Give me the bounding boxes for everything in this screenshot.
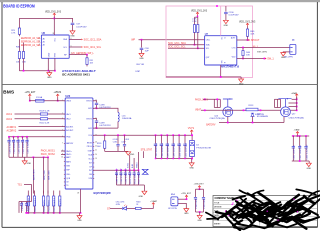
svg-text:CSD17578Q5A: CSD17578Q5A: [289, 116, 305, 119]
svg-text:U22: U22: [65, 94, 70, 98]
svg-text:TREG: TREG: [136, 162, 138, 168]
wire pink vertical to U7: [220, 6, 222, 36]
svg-text:A2: A2: [43, 44, 45, 47]
svg-text:VAC2: VAC2: [6, 118, 13, 121]
junction bankB5: [133, 169, 135, 171]
svg-text:SW2: SW2: [88, 128, 92, 130]
svg-text:9: 9: [62, 154, 63, 156]
svg-text:VBUS: VBUS: [66, 101, 72, 103]
junction bankC2: [299, 135, 301, 137]
wire bankB net3: [138, 152, 140, 170]
svg-text:2: 2: [62, 113, 63, 115]
svg-text:C165 10UF/35V: C165 10UF/35V: [18, 138, 20, 153]
svg-text:VAC1: VAC1: [66, 113, 70, 116]
wire WP to U7: [139, 39, 205, 41]
junction bankB2: [120, 169, 122, 171]
capacitor C168: [21, 202, 23, 204]
svg-text:1UH/6.8A: 1UH/6.8A: [122, 117, 132, 120]
ground clusterA: [127, 150, 128, 152]
svg-text:C164 10UF/35V: C164 10UF/35V: [14, 138, 16, 153]
svg-text:C187: C187: [121, 141, 125, 143]
ground J14: [184, 209, 189, 212]
svg-text:SOC_I2C1_SDA: SOC_I2C1_SDA: [84, 38, 102, 41]
junction R111: [104, 134, 106, 136]
wire pulldowns to gnd rail: [18, 59, 20, 71]
svg-text:R125 10K: R125 10K: [27, 201, 29, 211]
ground C196: [223, 20, 228, 23]
svg-text:REGN: REGN: [87, 142, 93, 144]
svg-text:SCL: SCL: [63, 47, 67, 49]
svg-text:4.7K: 4.7K: [11, 33, 16, 35]
svg-text:PACK_MOS: PACK_MOS: [195, 98, 208, 101]
connector J14: [171, 197, 178, 206]
wire gnd rail: [19, 70, 55, 72]
wire gnd run: [166, 76, 241, 78]
ground EEPROM: [48, 71, 50, 73]
svg-text:STB_STAT: STB_STAT: [141, 149, 153, 152]
svg-text:GND: GND: [184, 213, 189, 215]
svg-text:20: 20: [95, 154, 97, 156]
svg-text:SOC_I2C1_SDA: SOC_I2C1_SDA: [168, 42, 186, 45]
wire U6 bottom pins: [47, 58, 49, 70]
capacitor C166: [22, 137, 24, 140]
wire U6 SDA: [69, 38, 81, 40]
wire ACDRV2 row: [19, 129, 66, 131]
svg-text:0.1UF/16V: 0.1UF/16V: [229, 15, 240, 17]
junction gnd rail: [23, 70, 25, 72]
svg-text:SCL: SCL: [206, 48, 210, 50]
svg-text:GND: GND: [239, 84, 244, 86]
capacitor C194: [195, 189, 197, 197]
redaction scribble: [281, 207, 302, 219]
svg-text:GND: GND: [281, 57, 286, 59]
junction bankB6: [138, 169, 140, 171]
svg-text:SD103ASW: SD103ASW: [257, 115, 268, 118]
junction R44 SCL: [197, 47, 199, 49]
junction R46 top: [242, 47, 244, 49]
svg-text:VBAT: VBAT: [195, 109, 202, 112]
diode D22: [251, 113, 254, 116]
junction vsys4: [172, 134, 174, 136]
svg-text:VDD_SYS_3V3: VDD_SYS_3V3: [191, 10, 208, 12]
junction pink top: [216, 5, 218, 7]
svg-text:R115 10K/1%: R115 10K/1%: [130, 171, 132, 183]
svg-text:C190 0.1UF/16V: C190 0.1UF/16V: [126, 168, 128, 184]
svg-text:VAC1: VAC1: [6, 113, 13, 116]
svg-text:ACDRV1: ACDRV1: [66, 125, 73, 128]
ground J4 pin2: [281, 53, 286, 56]
power +VIN_EXT: [29, 94, 31, 97]
capacitor R116: [133, 170, 135, 172]
wire ALRT to SPOUT: [237, 39, 249, 41]
svg-text:F3 6A: F3 6A: [36, 96, 42, 99]
resistor R118: [136, 207, 142, 209]
junction R43 SDA: [194, 44, 196, 46]
power VSYS: [191, 130, 193, 133]
junction incap2: [13, 136, 15, 138]
wire ACDRV1 row: [19, 126, 66, 128]
wire bankB net1: [129, 155, 131, 170]
svg-text:6: 6: [62, 136, 63, 138]
Q17 drain lead: [278, 99, 291, 107]
junction R121 bottom: [43, 212, 45, 214]
U22 pin stubs: [64, 100, 65, 102]
capacitor C202: [305, 136, 307, 146]
capacitor C57: [71, 22, 75, 24]
svg-text:A1: A1: [43, 41, 45, 44]
svg-text:MAX17048G+T10: MAX17048G+T10: [221, 66, 240, 69]
svg-text:I2C ADDRESS 0X01: I2C ADDRESS 0X01: [62, 73, 91, 76]
wire PMID row: [9, 136, 66, 138]
wire J14 pin1: [178, 198, 187, 200]
svg-text:C183 22UF/25V: C183 22UF/25V: [156, 142, 158, 157]
svg-text:BATP_SNS: BATP_SNS: [33, 169, 36, 180]
svg-text:R110 2.2R: R110 2.2R: [40, 123, 50, 125]
svg-text:+VBAT: +VBAT: [294, 129, 301, 132]
svg-text:GND: GND: [197, 220, 202, 222]
resistor R123: [53, 191, 55, 197]
wire incap gnd rail: [9, 156, 48, 158]
node SW_1: [265, 58, 267, 60]
svg-text:10K: 10K: [97, 146, 101, 148]
wire J4 pin2 to gnd: [283, 51, 290, 54]
wire left drop: [18, 18, 20, 28]
svg-text:GND: GND: [307, 168, 312, 170]
junction vsys6: [184, 134, 186, 136]
wire SDA into U7: [168, 44, 205, 46]
junction SPOUT: [247, 39, 249, 41]
chip U22: [65, 98, 93, 189]
svg-text:BATDRV: BATDRV: [66, 142, 74, 145]
junction vsys3: [166, 134, 168, 136]
svg-text:VSYS: VSYS: [188, 127, 195, 130]
svg-text:VDD_SYS_3V3: VDD_SYS_3V3: [45, 11, 62, 14]
svg-text:Q16: Q16: [214, 115, 218, 117]
junction bottom rail right: [80, 212, 82, 214]
svg-text:EXT_BTN: EXT_BTN: [257, 52, 267, 54]
svg-text:BOARD ID EEPROM: BOARD ID EEPROM: [3, 4, 35, 9]
ground bankB: [143, 185, 145, 191]
ground bankC: [308, 161, 310, 163]
svg-text:PROG: PROG: [87, 146, 93, 148]
node SOC_I2C1_SDA right: [81, 39, 83, 41]
wire U7 gnd drop: [220, 65, 222, 77]
svg-text:PTVS20VS1UTR: PTVS20VS1UTR: [196, 148, 211, 150]
junction C187: [124, 134, 126, 136]
resistor R45: [247, 26, 249, 29]
wire BTST2: [93, 119, 97, 121]
svg-text:10K: 10K: [250, 34, 254, 36]
svg-text:C198: C198: [99, 104, 105, 106]
wire TS1: [24, 185, 32, 202]
svg-text:C194 10UF: C194 10UF: [196, 198, 198, 209]
power +VBAT lower: [297, 132, 299, 135]
svg-text:TITLE:: TITLE:: [214, 203, 220, 205]
svg-text:I2C_EEPROM_WP_L: I2C_EEPROM_WP_L: [72, 53, 95, 55]
svg-text:PACK_MOS2: PACK_MOS2: [41, 153, 56, 156]
junction source rail: [204, 109, 206, 111]
svg-text:10: 10: [61, 157, 63, 159]
svg-text:R109 2.2R: R109 2.2R: [40, 110, 50, 112]
wire gate rail: [219, 122, 284, 124]
resistor R121: [43, 191, 45, 197]
svg-text:R124 10K/1%: R124 10K/1%: [60, 199, 62, 212]
resistor R113 sense: [246, 108, 258, 111]
svg-text:GND: GND: [77, 220, 82, 222]
ground C57: [70, 31, 75, 34]
wire SRP vertical: [47, 157, 49, 193]
capacitor C187: [124, 135, 126, 144]
junction bankC3: [305, 135, 307, 137]
ground incaps: [24, 157, 26, 161]
wire cluster top: [196, 188, 204, 190]
power J14 VIN: [186, 195, 188, 198]
junction gnd run: [220, 76, 222, 78]
resistor R122: [47, 191, 49, 197]
capacitor C195: [203, 189, 205, 197]
capacitor C199: [95, 120, 98, 122]
svg-text:C186 22UF/25V: C186 22UF/25V: [174, 142, 176, 157]
svg-text:PACK-: PACK-: [66, 153, 72, 156]
svg-text:BTST1: BTST1: [86, 101, 91, 103]
resistor R119: [27, 191, 29, 197]
resistor R120: [33, 191, 35, 197]
svg-text:C195 10UF: C195 10UF: [204, 198, 206, 209]
svg-text:C185 22UF/25V: C185 22UF/25V: [168, 142, 170, 157]
junction bankB3: [124, 169, 126, 171]
svg-text:SPOUT: SPOUT: [251, 39, 260, 42]
capacitor C188: [116, 170, 118, 172]
junction vsys5: [178, 134, 180, 136]
Q16 drain lead: [223, 99, 233, 107]
resistor R109: [40, 113, 47, 115]
junction R123 bottom: [53, 212, 55, 214]
wire bankB net2: [133, 158, 135, 170]
svg-text:GND: GND: [49, 52, 51, 57]
wire vsys bank bottom: [156, 158, 192, 160]
svg-text:ACDRV2: ACDRV2: [66, 129, 73, 132]
wire VAC1 row: [15, 113, 41, 115]
junction bankC1: [292, 135, 294, 137]
svg-text:7: 7: [62, 142, 63, 144]
ground U22 pad: [79, 213, 81, 216]
resistor R43: [194, 17, 196, 24]
svg-text:1: 1: [62, 100, 63, 102]
svg-text:SCL: SCL: [88, 159, 91, 161]
wire gate ladder top: [203, 98, 220, 100]
wire bankB bottom: [117, 184, 145, 186]
wire VAC2 row: [15, 118, 41, 120]
junction vsys1: [155, 134, 157, 136]
wire VBAT stubs: [292, 98, 297, 100]
svg-text:SW_1: SW_1: [267, 58, 274, 61]
svg-text:SOC_I2C1_SCL: SOC_I2C1_SCL: [84, 46, 102, 49]
capacitor R117: [138, 170, 140, 172]
svg-text:+VIN_EXT: +VIN_EXT: [25, 92, 37, 94]
svg-text:C189 0.1UF/16V: C189 0.1UF/16V: [121, 168, 123, 184]
svg-text:R122 0R/5%: R122 0R/5%: [48, 200, 50, 212]
capacitor C165: [17, 137, 19, 140]
svg-text:C167 0.1UF/35V: C167 0.1UF/35V: [27, 138, 29, 154]
svg-text:10K: 10K: [246, 55, 250, 57]
gate ladder Q17: [274, 99, 276, 107]
capacitor C192: [184, 135, 186, 143]
wire labels to pulldowns: [18, 39, 20, 51]
svg-text:SD_1: SD_1: [253, 46, 259, 48]
junction VDD: [53, 18, 55, 20]
capacitor C198: [95, 102, 98, 104]
svg-text:C163 0.1UF/35V: C163 0.1UF/35V: [9, 138, 11, 154]
svg-text:ILIM: ILIM: [132, 164, 134, 168]
capacitor C190: [124, 170, 126, 172]
capacitor C184: [160, 135, 162, 143]
svg-text:C200 10UF/35V: C200 10UF/35V: [294, 144, 296, 159]
junction VBUS: [57, 100, 59, 102]
diode D21 LED: [123, 207, 127, 210]
svg-text:C188 0.1UF/16V: C188 0.1UF/16V: [117, 168, 119, 184]
svg-text:GND: GND: [139, 196, 144, 198]
svg-text:GND: GND: [130, 154, 135, 156]
capacitor C186: [172, 135, 174, 143]
fuse F3: [36, 99, 44, 102]
wire source rail: [201, 109, 297, 111]
wire TS cluster top: [19, 201, 32, 203]
svg-text:DATE:: DATE:: [214, 214, 220, 217]
svg-text:2: 2: [39, 41, 40, 43]
svg-text:SRP_SNS: SRP_SNS: [48, 170, 50, 180]
svg-text:R118: R118: [136, 201, 140, 203]
transistor Q17: [281, 107, 291, 117]
resistor R46: [242, 48, 244, 51]
svg-text:49: 49: [77, 193, 79, 195]
junction SW1 cap: [96, 107, 98, 109]
wire SW2: [93, 127, 118, 129]
svg-text:GND: GND: [70, 36, 75, 38]
junction vsys bottom: [191, 158, 193, 160]
junction VIN: [29, 100, 31, 102]
svg-text:U6: U6: [42, 31, 46, 35]
ground C58: [139, 53, 144, 56]
svg-text:BATN: BATN: [66, 160, 71, 163]
power +VBAT top: [296, 94, 298, 97]
svg-text:R47 0R: R47 0R: [137, 64, 145, 66]
svg-text:PMID: PMID: [66, 137, 71, 139]
section divider: [2, 84, 317, 86]
svg-text:ICHG: ICHG: [128, 162, 130, 168]
capacitor C189: [120, 170, 122, 172]
junction PACK_MOS: [204, 98, 206, 100]
svg-text:1: 1: [39, 38, 40, 40]
junction WP: [86, 54, 88, 56]
ground U7: [240, 77, 242, 79]
resistor R31: [86, 55, 88, 58]
wire cluster bottom: [196, 211, 204, 213]
junction R46 bottom: [242, 58, 244, 60]
wire SW1: [93, 108, 118, 112]
connector J4: [290, 44, 296, 54]
svg-text:SOC_I2C1_SCL: SOC_I2C1_SCL: [168, 46, 186, 49]
diode D4 TVS: [189, 140, 194, 156]
wire SW_1 row: [237, 58, 265, 60]
resistor R38: [22, 52, 24, 59]
power symbol pink VDD: [197, 12, 199, 15]
pink group box: [166, 6, 253, 78]
page top gray band: [0, 0, 320, 2]
junction R120 bottom: [34, 212, 36, 214]
svg-text:PACK_MOS1: PACK_MOS1: [41, 150, 56, 153]
svg-text:R116 10K/1%: R116 10K/1%: [134, 171, 136, 183]
svg-text:GND: GND: [139, 58, 144, 60]
svg-text:GND: GND: [27, 163, 32, 165]
capacitor C201: [299, 136, 301, 146]
svg-text:5: 5: [62, 129, 63, 131]
svg-text:GRN: GRN: [116, 204, 121, 206]
page border left: [1, 2, 3, 227]
svg-text:ACDRV2: ACDRV2: [7, 129, 17, 132]
wire VDD rail: [19, 18, 72, 22]
node SOC_I2C1_SCL right: [81, 46, 83, 48]
wire L16 to SW2: [117, 122, 119, 129]
chip U6: [41, 35, 69, 58]
svg-text:C182: C182: [113, 141, 117, 143]
capacitor C185: [166, 135, 168, 143]
capacitor R115: [129, 170, 131, 172]
svg-text:DESIGN:: DESIGN:: [214, 207, 222, 209]
svg-text:WP: WP: [131, 39, 135, 42]
power cluster VIN: [199, 186, 201, 189]
svg-text:C192 22UF/25V: C192 22UF/25V: [185, 142, 187, 157]
wire SCL into U7: [168, 47, 205, 49]
wire VBUS row: [30, 100, 36, 102]
svg-text:Q17: Q17: [292, 114, 296, 116]
svg-text:C199: C199: [99, 122, 105, 124]
junction R119 bottom: [27, 212, 29, 214]
svg-text:C166 10UF/35V: C166 10UF/35V: [23, 138, 25, 153]
junction C182: [117, 134, 119, 136]
resistor R30: [18, 52, 20, 59]
power symbol VDD_SYS_3V3: [53, 13, 55, 16]
svg-text:BTST2: BTST2: [86, 118, 91, 120]
svg-text:10K: 10K: [22, 61, 26, 63]
svg-text:8: 8: [62, 150, 63, 152]
junction sense rail: [33, 156, 35, 158]
svg-text:C191 22UF/25V: C191 22UF/25V: [180, 142, 182, 157]
svg-text:R120 100K/1%: R120 100K/1%: [35, 198, 37, 212]
capacitor C169: [26, 202, 28, 204]
svg-text:BQ25790RQMR: BQ25790RQMR: [94, 191, 111, 195]
wire U6 WP: [69, 54, 87, 56]
wire clusterA bottom: [105, 150, 127, 152]
wire VDD to U6: [53, 18, 55, 35]
junction incap5: [26, 136, 28, 138]
wire SRN vertical: [43, 157, 45, 193]
capacitor C200: [292, 136, 294, 146]
svg-text:C168 10K: C168 10K: [22, 201, 24, 211]
junction SW2 cap: [96, 127, 98, 129]
power symbol right VDD: [247, 23, 249, 26]
capacitor C167: [26, 137, 28, 140]
svg-text:R121 0R/5%: R121 0R/5%: [44, 200, 46, 212]
svg-text:CTG: CTG: [232, 48, 236, 50]
wire LED to R118: [127, 207, 136, 209]
svg-text:A0: A0: [43, 37, 45, 40]
svg-text:4: 4: [62, 126, 63, 128]
wire R43 to SDA: [194, 32, 196, 44]
svg-text:SW1: SW1: [88, 108, 92, 110]
wire VBAT rail v: [296, 97, 298, 111]
wire BATP vertical: [32, 157, 34, 193]
resistor R29: [18, 28, 20, 34]
